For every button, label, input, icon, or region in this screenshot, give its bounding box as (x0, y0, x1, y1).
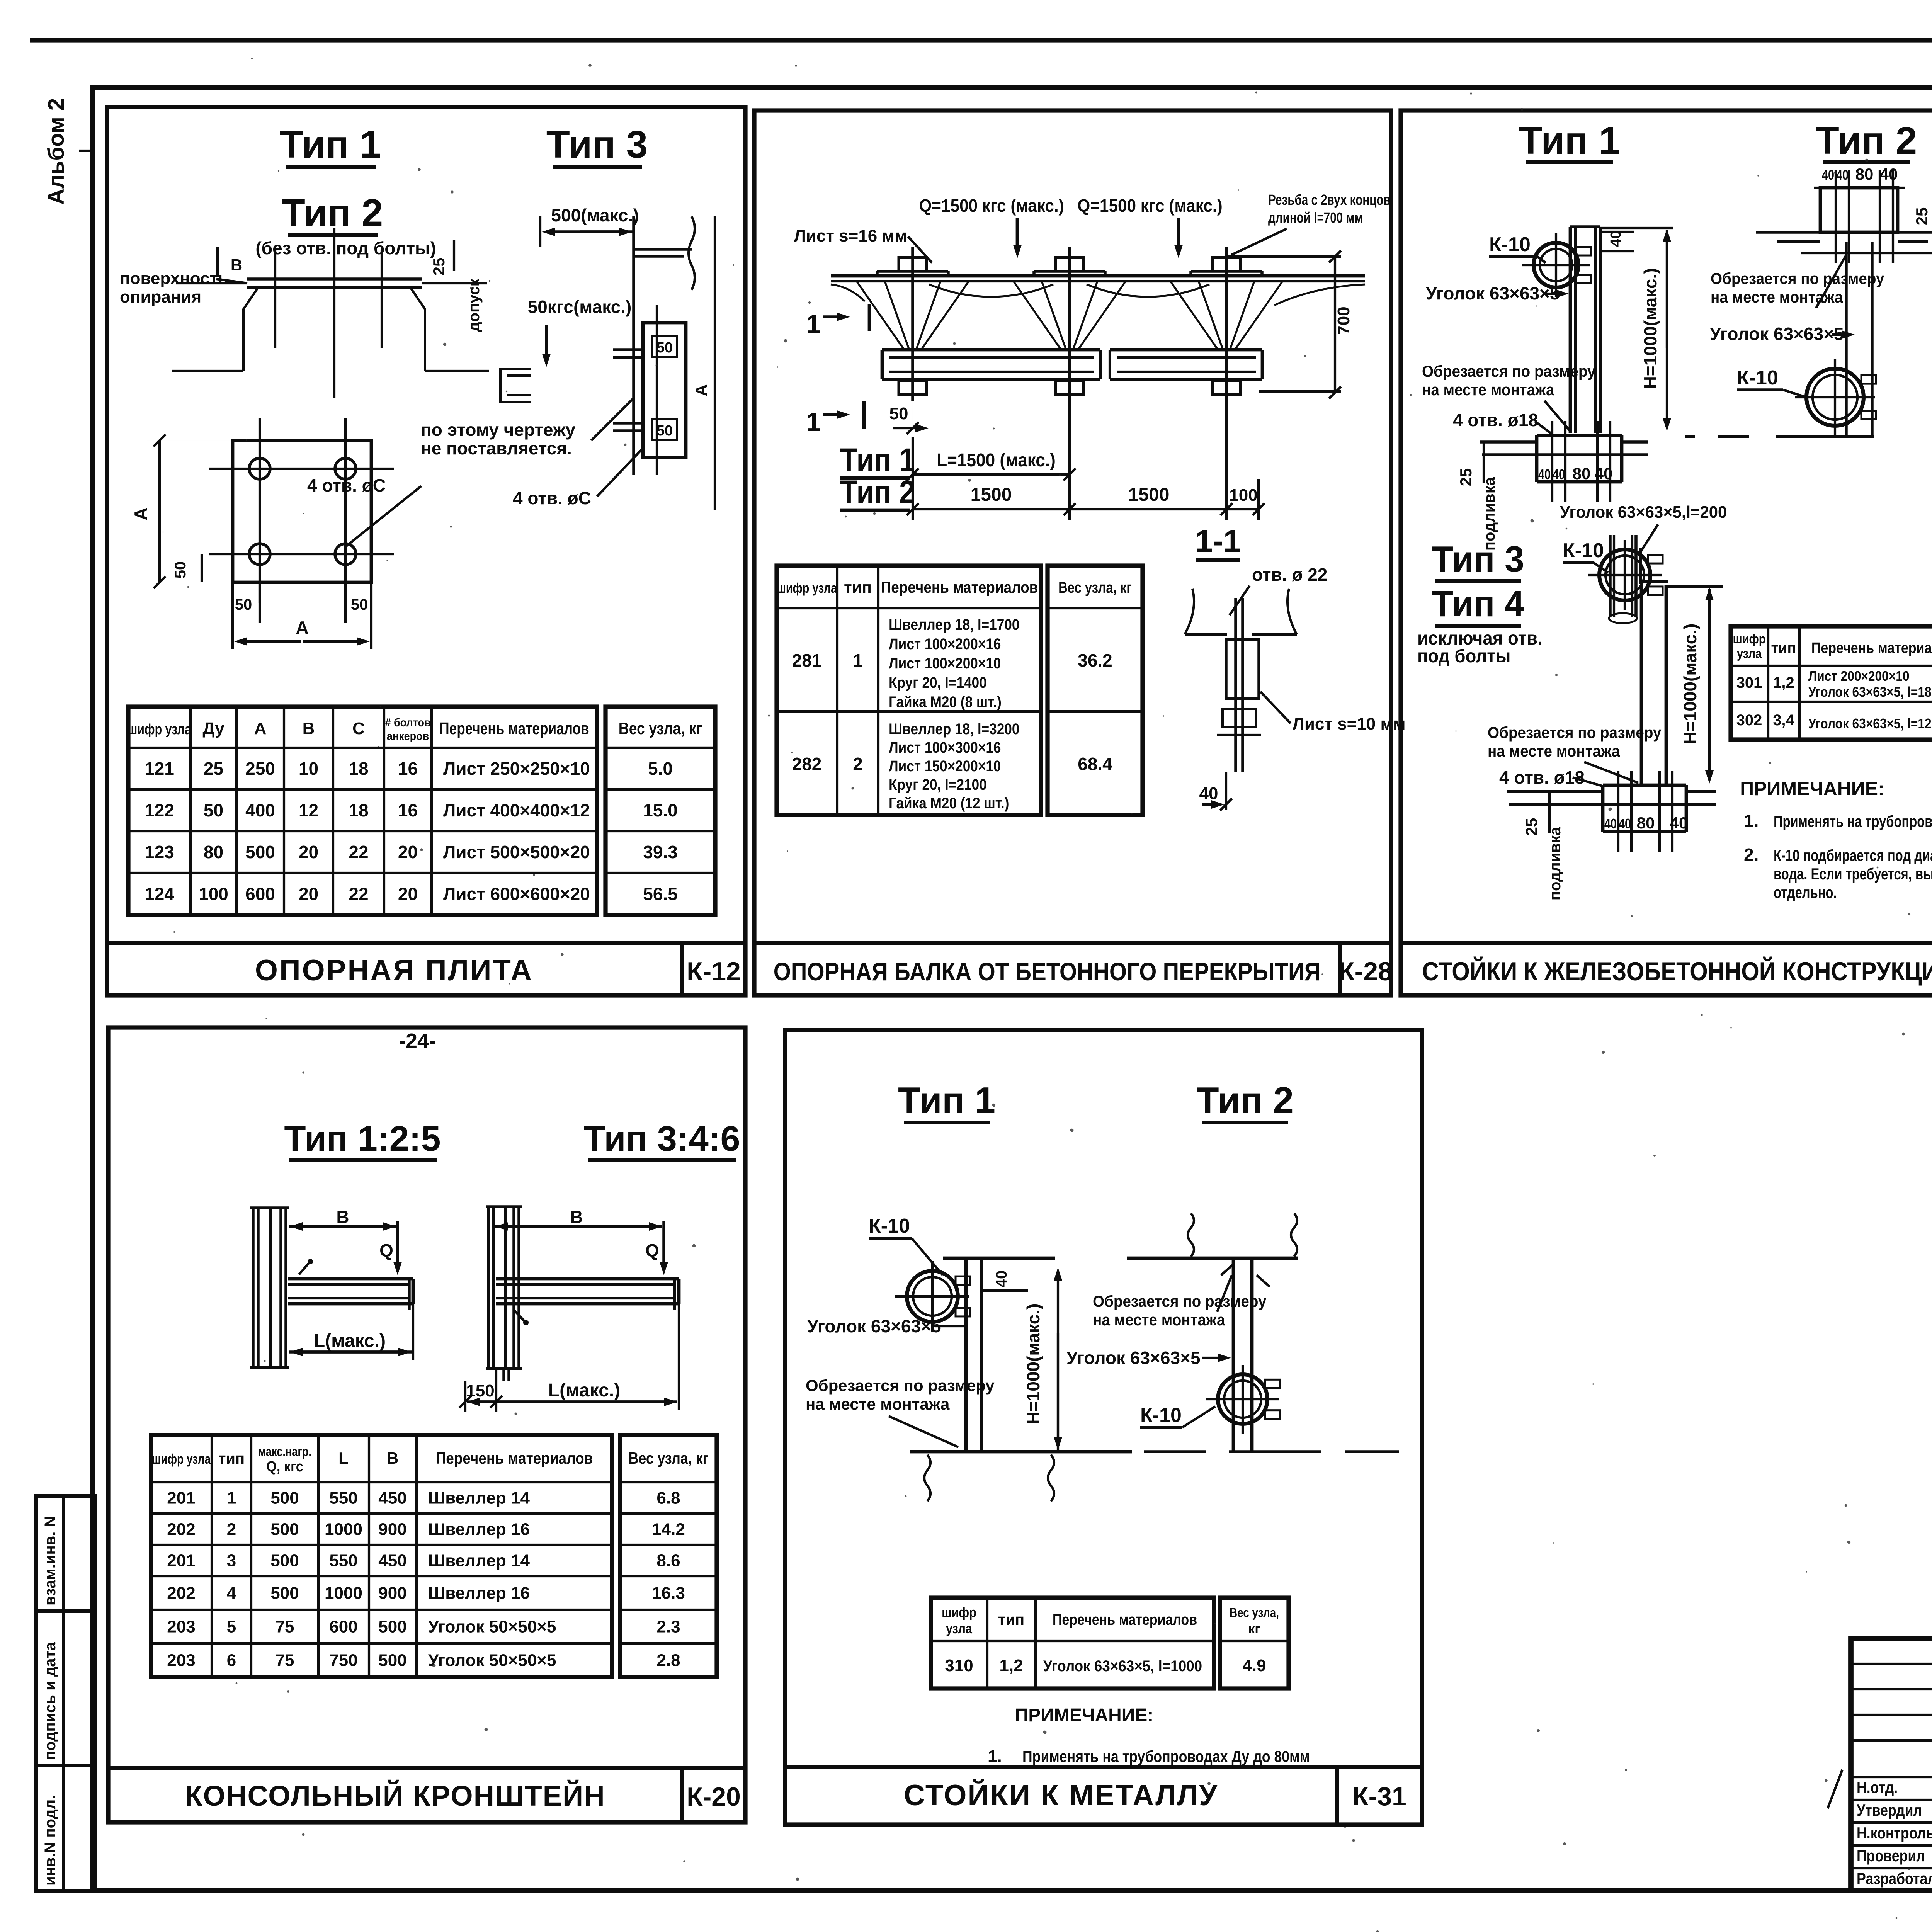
svg-text:4 отв. ø18: 4 отв. ø18 (1453, 410, 1538, 430)
svg-text:В: В (570, 1207, 583, 1227)
svg-text:на месте монтажа: на месте монтажа (806, 1395, 950, 1413)
K-12 bolt hole 2 (335, 458, 356, 479)
svg-text:15.0: 15.0 (643, 800, 678, 820)
K-30 t2 hanging angle (1845, 241, 1848, 437)
svg-text:длиной l=700 мм: длиной l=700 мм (1268, 210, 1363, 226)
K-28 detail slab wavy (1185, 589, 1297, 634)
K-30 table (1767, 626, 1769, 740)
svg-text:Круг 20, l=1400: Круг 20, l=1400 (889, 674, 987, 691)
svg-text:Лист 100×200×10: Лист 100×200×10 (889, 655, 1001, 672)
K-12 type3 dim 50 top (652, 336, 677, 357)
svg-text:4.9: 4.9 (1242, 1656, 1266, 1675)
svg-text:не поставляется.: не поставляется. (421, 438, 572, 458)
svg-text:L=1500 (макс.): L=1500 (макс.) (937, 449, 1056, 470)
svg-text:80: 80 (1855, 165, 1874, 183)
svg-text:1.: 1. (988, 1747, 1002, 1766)
svg-text:узла: узла (946, 1621, 972, 1637)
svg-text:Обрезается по размеру: Обрезается по размеру (1422, 362, 1596, 380)
svg-text:К-28: К-28 (1338, 957, 1393, 986)
K-31 t1 post (964, 1258, 968, 1452)
svg-text:Швеллер 18, l=1700: Швеллер 18, l=1700 (889, 616, 1019, 633)
svg-text:Уголок 63×63×5: Уголок 63×63×5 (807, 1316, 941, 1336)
svg-text:500: 500 (270, 1520, 299, 1539)
svg-text:под болты: под болты (1417, 646, 1510, 666)
panel K-20 frame (108, 1027, 745, 1822)
svg-text:1: 1 (806, 407, 821, 437)
svg-text:ОПОРНАЯ БАЛКА ОТ БЕТОННОГО ПЕР: ОПОРНАЯ БАЛКА ОТ БЕТОННОГО ПЕРЕКРЫТИЯ (774, 958, 1321, 986)
svg-text:12: 12 (299, 800, 318, 820)
K-28 hanger bolt (1068, 247, 1071, 401)
svg-text:Разработал: Разработал (1857, 1870, 1932, 1888)
K-28 load arrow 2 (1177, 218, 1180, 245)
svg-text:К-31: К-31 (1352, 1782, 1406, 1811)
svg-text:кг: кг (1248, 1622, 1260, 1636)
svg-text:25: 25 (1913, 207, 1931, 226)
svg-text:Тип 2: Тип 2 (840, 474, 915, 510)
svg-text:39.3: 39.3 (643, 842, 678, 862)
svg-text:2: 2 (853, 754, 863, 774)
panel K-31 frame (785, 1030, 1422, 1825)
svg-text:Тип 1: Тип 1 (1519, 119, 1621, 162)
svg-text:Лист 100×300×16: Лист 100×300×16 (889, 739, 1001, 756)
svg-text:К-10: К-10 (1489, 233, 1531, 256)
svg-text:L(макс.): L(макс.) (314, 1331, 386, 1351)
K-31 weight table (1220, 1598, 1289, 1689)
svg-text:Вес узла,: Вес узла, (1230, 1605, 1279, 1620)
svg-text:Лист s=16 мм: Лист s=16 мм (794, 226, 907, 245)
svg-text:Лист 400×400×12: Лист 400×400×12 (443, 800, 590, 820)
top border line (30, 38, 1932, 42)
K-12 plan centerlines (259, 418, 261, 603)
svg-text:2.3: 2.3 (656, 1617, 680, 1636)
svg-text:3,4: 3,4 (1773, 712, 1794, 729)
svg-text:1: 1 (853, 650, 863, 670)
svg-text:Применять на трубопроводах Ду: Применять на трубопроводах Ду до 80мм (1022, 1748, 1310, 1765)
K-30 t3 angle piece (1639, 548, 1642, 584)
K-12 type3 dim A right (714, 216, 716, 510)
K-30 t3 pipe (1609, 535, 1612, 617)
svg-text:1-1: 1-1 (1195, 524, 1241, 559)
svg-text:100: 100 (199, 884, 228, 904)
svg-text:600: 600 (329, 1617, 357, 1636)
svg-text:202: 202 (167, 1520, 195, 1539)
svg-text:301: 301 (1736, 674, 1762, 691)
svg-text:Лист 200×200×10: Лист 200×200×10 (1808, 668, 1909, 684)
svg-text:250: 250 (245, 759, 275, 779)
svg-text:Уголок 63×63×5: Уголок 63×63×5 (1710, 324, 1844, 344)
panel K-12 title band (107, 941, 745, 945)
svg-text:А: А (296, 617, 308, 638)
svg-text:Тип 2: Тип 2 (1196, 1080, 1294, 1121)
svg-text:на месте монтажа: на месте монтажа (1422, 380, 1554, 399)
K-28 dim 700 (1228, 255, 1341, 258)
svg-text:122: 122 (145, 800, 174, 820)
svg-text:узла: узла (1737, 646, 1762, 661)
svg-text:(без отв. под болты): (без отв. под болты) (255, 238, 436, 258)
svg-text:шифр узла: шифр узла (777, 580, 837, 596)
svg-text:Перечень материалов: Перечень материалов (1811, 639, 1932, 656)
svg-text:ОПОРНАЯ ПЛИТА: ОПОРНАЯ ПЛИТА (255, 954, 533, 987)
svg-text:Тип 2: Тип 2 (1816, 119, 1917, 162)
svg-text:25: 25 (1457, 468, 1475, 486)
svg-text:Вес узла, кг: Вес узла, кг (619, 719, 702, 738)
K-20 t125 weld mark (299, 1263, 309, 1274)
svg-text:Круг 20, l=2100: Круг 20, l=2100 (889, 776, 987, 793)
svg-text:Тип 1: Тип 1 (280, 123, 381, 166)
K-30 t2 bottom dash (1685, 435, 1695, 438)
svg-text:1.: 1. (1744, 811, 1759, 831)
svg-text:Тип 1: Тип 1 (840, 442, 915, 478)
svg-text:1,2: 1,2 (1773, 674, 1794, 691)
svg-text:Q=1500 кгс (макс.): Q=1500 кгс (макс.) (1077, 196, 1222, 216)
svg-text:40: 40 (1836, 167, 1849, 183)
svg-text:18: 18 (349, 759, 368, 779)
svg-text:1: 1 (227, 1489, 236, 1508)
svg-text:50: 50 (351, 596, 368, 613)
svg-text:Q: Q (645, 1240, 659, 1260)
svg-text:450: 450 (378, 1489, 406, 1508)
svg-text:203: 203 (167, 1651, 195, 1670)
svg-text:Тип 3:4:6: Тип 3:4:6 (583, 1119, 740, 1158)
K-31 t1 clamp (907, 1271, 958, 1322)
svg-text:К-10: К-10 (1737, 367, 1778, 389)
svg-text:4 отв. øС: 4 отв. øС (513, 488, 591, 508)
svg-text:шифр узла: шифр узла (128, 721, 192, 738)
svg-text:1500: 1500 (971, 485, 1012, 505)
K-28 detail nut (1223, 709, 1256, 727)
panel K-30 title band (1401, 941, 1932, 945)
svg-text:201: 201 (167, 1489, 195, 1508)
svg-text:2: 2 (227, 1520, 236, 1539)
K-31 t2 weld mark (1221, 1264, 1233, 1275)
K-28 hanger bolt (1225, 247, 1228, 401)
svg-text:В: В (303, 719, 315, 738)
svg-text:56.5: 56.5 (643, 884, 678, 904)
svg-text:10: 10 (299, 759, 318, 779)
K-30 t1 post (1569, 227, 1572, 433)
svg-text:Резьба с 2вух концов: Резьба с 2вух концов (1268, 192, 1391, 208)
svg-text:шифр: шифр (1733, 631, 1766, 646)
title block frame (1851, 1638, 1932, 1891)
svg-text:40: 40 (1604, 816, 1617, 832)
svg-text:ПРИМЕЧАНИЕ:: ПРИМЕЧАНИЕ: (1740, 778, 1884, 799)
svg-text:А: А (131, 507, 151, 520)
svg-text:50: 50 (235, 596, 252, 613)
svg-text:14.2: 14.2 (652, 1520, 685, 1539)
K-12 table (189, 707, 192, 915)
svg-text:Обрезается по размеру: Обрезается по размеру (1711, 269, 1884, 287)
svg-text:шифр узла: шифр узла (152, 1451, 211, 1467)
svg-text:ПРИМЕЧАНИЕ:: ПРИМЕЧАНИЕ: (1015, 1705, 1154, 1726)
K-12 weight table (605, 707, 715, 915)
svg-text:отв. ø 22: отв. ø 22 (1252, 565, 1327, 585)
svg-text:550: 550 (329, 1551, 357, 1570)
svg-text:подливка: подливка (1547, 827, 1564, 900)
K-12 type3 channel symbol (500, 369, 531, 402)
panel K-12 frame (107, 107, 745, 995)
svg-text:75: 75 (276, 1651, 294, 1670)
svg-text:анкеров: анкеров (387, 730, 429, 743)
svg-text:8.6: 8.6 (656, 1551, 680, 1570)
svg-text:Применять на трубопроводах Ду: Применять на трубопроводах Ду до 80мм (1774, 812, 1932, 830)
svg-text:Уголок 63×63×5,l=200: Уголок 63×63×5,l=200 (1560, 503, 1727, 522)
left margin box podpis (36, 1611, 95, 1765)
K-30 t3 post (1640, 585, 1643, 785)
svg-text:взам.инв. N: взам.инв. N (42, 1516, 59, 1605)
K-28 slab left end step (831, 284, 865, 301)
svg-text:Обрезается по размеру: Обрезается по размеру (1093, 1292, 1267, 1310)
svg-text:тип: тип (1771, 640, 1796, 656)
K-12 dim A left (158, 440, 161, 582)
K-31 t2 ceiling (1127, 1257, 1298, 1260)
panel K-28 title band (754, 941, 1391, 945)
svg-text:К-10: К-10 (1140, 1404, 1182, 1427)
svg-text:инв.N подл.: инв.N подл. (42, 1795, 59, 1886)
svg-text:500: 500 (378, 1651, 406, 1670)
svg-text:L(макс.): L(макс.) (548, 1380, 620, 1401)
svg-text:40: 40 (1199, 784, 1218, 803)
svg-text:4 отв. ø18: 4 отв. ø18 (1499, 767, 1585, 787)
svg-text:50: 50 (204, 800, 223, 820)
svg-text:Н=1000(макс.): Н=1000(макс.) (1680, 624, 1700, 745)
svg-text:20: 20 (299, 884, 318, 904)
panel K-31 title band (785, 1765, 1422, 1769)
svg-text:4: 4 (227, 1584, 236, 1603)
svg-text:L: L (338, 1449, 349, 1467)
svg-text:68.4: 68.4 (1078, 754, 1112, 774)
svg-text:СТОЙКИ К МЕТАЛЛУ: СТОЙКИ К МЕТАЛЛУ (904, 1779, 1218, 1812)
svg-text:С: С (352, 719, 365, 738)
svg-text:на месте монтажа: на месте монтажа (1488, 742, 1620, 760)
svg-text:Н=1000(макс.): Н=1000(макс.) (1640, 268, 1660, 389)
svg-text:203: 203 (167, 1617, 195, 1636)
svg-text:тип: тип (218, 1450, 245, 1467)
svg-text:Уголок 63×63×5, l=1800: Уголок 63×63×5, l=1800 (1808, 684, 1932, 700)
svg-text:4 отв. øС: 4 отв. øС (307, 475, 386, 495)
svg-text:по этому чертежу: по этому чертежу (421, 420, 576, 440)
svg-text:50: 50 (172, 561, 189, 579)
K-31 table (986, 1598, 988, 1689)
svg-text:2.: 2. (1744, 845, 1759, 865)
K-30 t2 floor lines (1756, 231, 1820, 234)
svg-text:Q, кгс: Q, кгс (266, 1458, 303, 1475)
svg-text:Перечень материалов: Перечень материалов (439, 719, 589, 738)
svg-text:22: 22 (349, 842, 368, 862)
svg-text:16: 16 (398, 800, 418, 820)
svg-text:Швеллер 16: Швеллер 16 (428, 1520, 530, 1539)
svg-text:40: 40 (1538, 466, 1551, 482)
panel K-20 title band (108, 1766, 745, 1770)
svg-text:Лист 250×250×10: Лист 250×250×10 (443, 759, 590, 779)
K-31 t2 post (1232, 1258, 1235, 1452)
K-30 t2 clamp (1806, 369, 1864, 426)
svg-text:Q: Q (379, 1240, 393, 1260)
svg-text:20: 20 (398, 842, 418, 862)
svg-text:Утвердил: Утвердил (1857, 1801, 1922, 1819)
svg-text:тип: тип (998, 1611, 1024, 1628)
svg-text:К-12: К-12 (687, 957, 741, 986)
svg-text:500: 500 (270, 1551, 299, 1570)
svg-text:Швеллер 14: Швеллер 14 (428, 1489, 530, 1508)
K-31 t2 floor dash (1144, 1450, 1206, 1453)
svg-text:# болтов: # болтов (385, 716, 430, 730)
K-20 t346 weld mark (514, 1310, 525, 1321)
K-30 t1 clamp (1534, 243, 1578, 287)
svg-text:1: 1 (806, 310, 821, 339)
svg-text:вода. Если требуется, выписыва: вода. Если требуется, выписывается (1774, 865, 1932, 883)
svg-text:Н=1000(макс.): Н=1000(макс.) (1023, 1304, 1043, 1425)
svg-text:Обрезается по размеру: Обрезается по размеру (806, 1376, 995, 1395)
svg-text:-24-: -24- (399, 1029, 436, 1053)
svg-text:20: 20 (398, 884, 418, 904)
K-12 type3 plate side view (643, 323, 686, 457)
svg-text:600: 600 (245, 884, 275, 904)
svg-text:282: 282 (792, 754, 822, 774)
svg-text:К-20: К-20 (687, 1782, 741, 1811)
K-30 t1 base plate (1537, 434, 1622, 437)
svg-text:5.0: 5.0 (648, 759, 673, 779)
svg-text:750: 750 (329, 1651, 357, 1670)
K-20 t125 column (252, 1208, 255, 1367)
svg-text:6.8: 6.8 (656, 1489, 680, 1508)
left margin box inv (36, 1765, 95, 1891)
K-12 type3 bracket top (632, 216, 635, 475)
svg-text:Вес узла, кг: Вес узла, кг (629, 1449, 709, 1467)
svg-text:Уголок 63×63×5: Уголок 63×63×5 (1066, 1348, 1201, 1368)
svg-text:500(макс.): 500(макс.) (551, 205, 639, 225)
K-28 weight table (1048, 566, 1143, 815)
svg-text:Тип 2: Тип 2 (282, 191, 383, 235)
K-28 table (836, 566, 838, 815)
svg-text:80: 80 (204, 842, 223, 862)
svg-text:В: В (387, 1449, 398, 1467)
K-30 t3 anchor bolts (1617, 771, 1619, 852)
svg-text:700: 700 (1334, 306, 1353, 335)
svg-text:допуск: допуск (466, 278, 483, 332)
svg-text:500: 500 (270, 1584, 299, 1603)
svg-text:тип: тип (844, 578, 872, 596)
svg-text:К-10: К-10 (1563, 539, 1604, 562)
svg-text:5: 5 (227, 1617, 236, 1636)
svg-text:2.8: 2.8 (656, 1651, 680, 1670)
svg-text:Альбом 2: Альбом 2 (44, 98, 69, 205)
K-28 slab haunch arch span2 (1087, 284, 1209, 297)
svg-text:22: 22 (349, 884, 368, 904)
svg-text:Тип 3: Тип 3 (1432, 538, 1524, 580)
svg-text:отдельно.: отдельно. (1774, 883, 1837, 901)
svg-text:Тип 3: Тип 3 (546, 123, 648, 166)
svg-text:80: 80 (1573, 464, 1591, 483)
svg-text:подпись и дата: подпись и дата (42, 1642, 59, 1760)
K-28 lower beam channel (882, 348, 1100, 352)
svg-text:201: 201 (167, 1551, 195, 1570)
K-12 bolt hole 4 (335, 544, 356, 565)
svg-text:550: 550 (329, 1489, 357, 1508)
K-12 dim 50 left (201, 554, 203, 582)
svg-text:Вес узла, кг: Вес узла, кг (1058, 579, 1132, 596)
svg-text:500: 500 (245, 842, 275, 862)
svg-text:25: 25 (430, 258, 448, 276)
svg-text:40: 40 (1595, 464, 1613, 483)
svg-text:Швеллер 16: Швеллер 16 (428, 1584, 530, 1603)
svg-text:Гайка М20 (12 шт.): Гайка М20 (12 шт.) (889, 794, 1009, 812)
svg-text:1000: 1000 (325, 1584, 362, 1603)
svg-text:опирания: опирания (120, 287, 201, 306)
K-28 slab haunch arch span1 (929, 284, 1053, 297)
K-12 bolt hole 3 (249, 544, 270, 565)
svg-text:124: 124 (145, 884, 174, 904)
K-28 slab right end step (1274, 284, 1365, 305)
svg-text:Н.отд.: Н.отд. (1857, 1779, 1898, 1796)
svg-text:Уголок 63×63×5, l=1200: Уголок 63×63×5, l=1200 (1808, 716, 1932, 731)
svg-text:40: 40 (1880, 165, 1898, 183)
svg-text:Уголок 63×63×5: Уголок 63×63×5 (1426, 283, 1560, 303)
svg-text:Тип 1:2:5: Тип 1:2:5 (284, 1119, 440, 1158)
svg-text:1500: 1500 (1128, 485, 1170, 505)
svg-text:310: 310 (945, 1656, 973, 1675)
svg-text:Уголок 50×50×5: Уголок 50×50×5 (428, 1617, 556, 1636)
K-30 t1 anchor bolts (1551, 421, 1553, 502)
K-20 t346 beam (496, 1277, 679, 1281)
svg-text:Лист 150×200×10: Лист 150×200×10 (889, 757, 1001, 775)
K-30 t3 clamp (1599, 549, 1650, 600)
svg-text:В: В (336, 1207, 349, 1227)
svg-text:3: 3 (227, 1551, 236, 1570)
svg-text:40: 40 (1553, 466, 1565, 482)
K-28 load arrow 1 (1016, 218, 1019, 245)
svg-text:100: 100 (1229, 486, 1257, 505)
K-31 t1 beam line (943, 1257, 1055, 1260)
K-31 t2 clamp (1218, 1374, 1267, 1424)
svg-text:50: 50 (889, 404, 908, 423)
svg-text:40: 40 (1822, 167, 1834, 183)
svg-text:Q=1500 кгс (макс.): Q=1500 кгс (макс.) (919, 196, 1064, 216)
svg-text:36.2: 36.2 (1078, 650, 1112, 670)
svg-text:1,2: 1,2 (999, 1656, 1023, 1675)
K-28 detail plate (1226, 639, 1259, 699)
K-20 t346 column (487, 1207, 490, 1369)
svg-text:Ду: Ду (202, 719, 224, 738)
svg-text:Тип 4: Тип 4 (1432, 583, 1524, 624)
K-30 t3 base (1603, 784, 1686, 787)
svg-text:К-10 подбирается под диаметр т: К-10 подбирается под диаметр трубопро- (1774, 846, 1932, 864)
svg-text:1000: 1000 (325, 1520, 362, 1539)
svg-text:40: 40 (1608, 231, 1624, 247)
K-12 plan view plate (233, 440, 371, 582)
svg-text:75: 75 (276, 1617, 294, 1636)
svg-text:на месте монтажа: на месте монтажа (1093, 1310, 1225, 1329)
svg-text:Обрезается по размеру: Обрезается по размеру (1488, 723, 1662, 742)
svg-text:Перечень материалов: Перечень материалов (881, 578, 1038, 597)
svg-text:Проверил: Проверил (1857, 1847, 1925, 1865)
svg-text:Швеллер 14: Швеллер 14 (428, 1551, 530, 1570)
svg-text:900: 900 (378, 1520, 406, 1539)
panel K-30 frame (1401, 111, 1932, 995)
title block slash mark (1828, 1770, 1842, 1808)
svg-text:18: 18 (349, 800, 368, 820)
K-30 t2 plate (1820, 188, 1898, 232)
svg-text:281: 281 (792, 650, 822, 670)
K-12 type3 bolt marks (613, 348, 643, 351)
svg-text:121: 121 (145, 759, 174, 779)
svg-text:25: 25 (1522, 818, 1541, 836)
K-12 type3 dim 50 bottom (652, 419, 677, 440)
svg-text:поверхность: поверхность (120, 269, 228, 288)
svg-text:СТОЙКИ К ЖЕЛЕЗОБЕТОННОЙ КОНСТР: СТОЙКИ К ЖЕЛЕЗОБЕТОННОЙ КОНСТРУКЦИИ (1422, 956, 1932, 986)
K-20 table (211, 1435, 213, 1677)
svg-text:Тип 1: Тип 1 (898, 1080, 995, 1121)
svg-text:202: 202 (167, 1584, 195, 1603)
